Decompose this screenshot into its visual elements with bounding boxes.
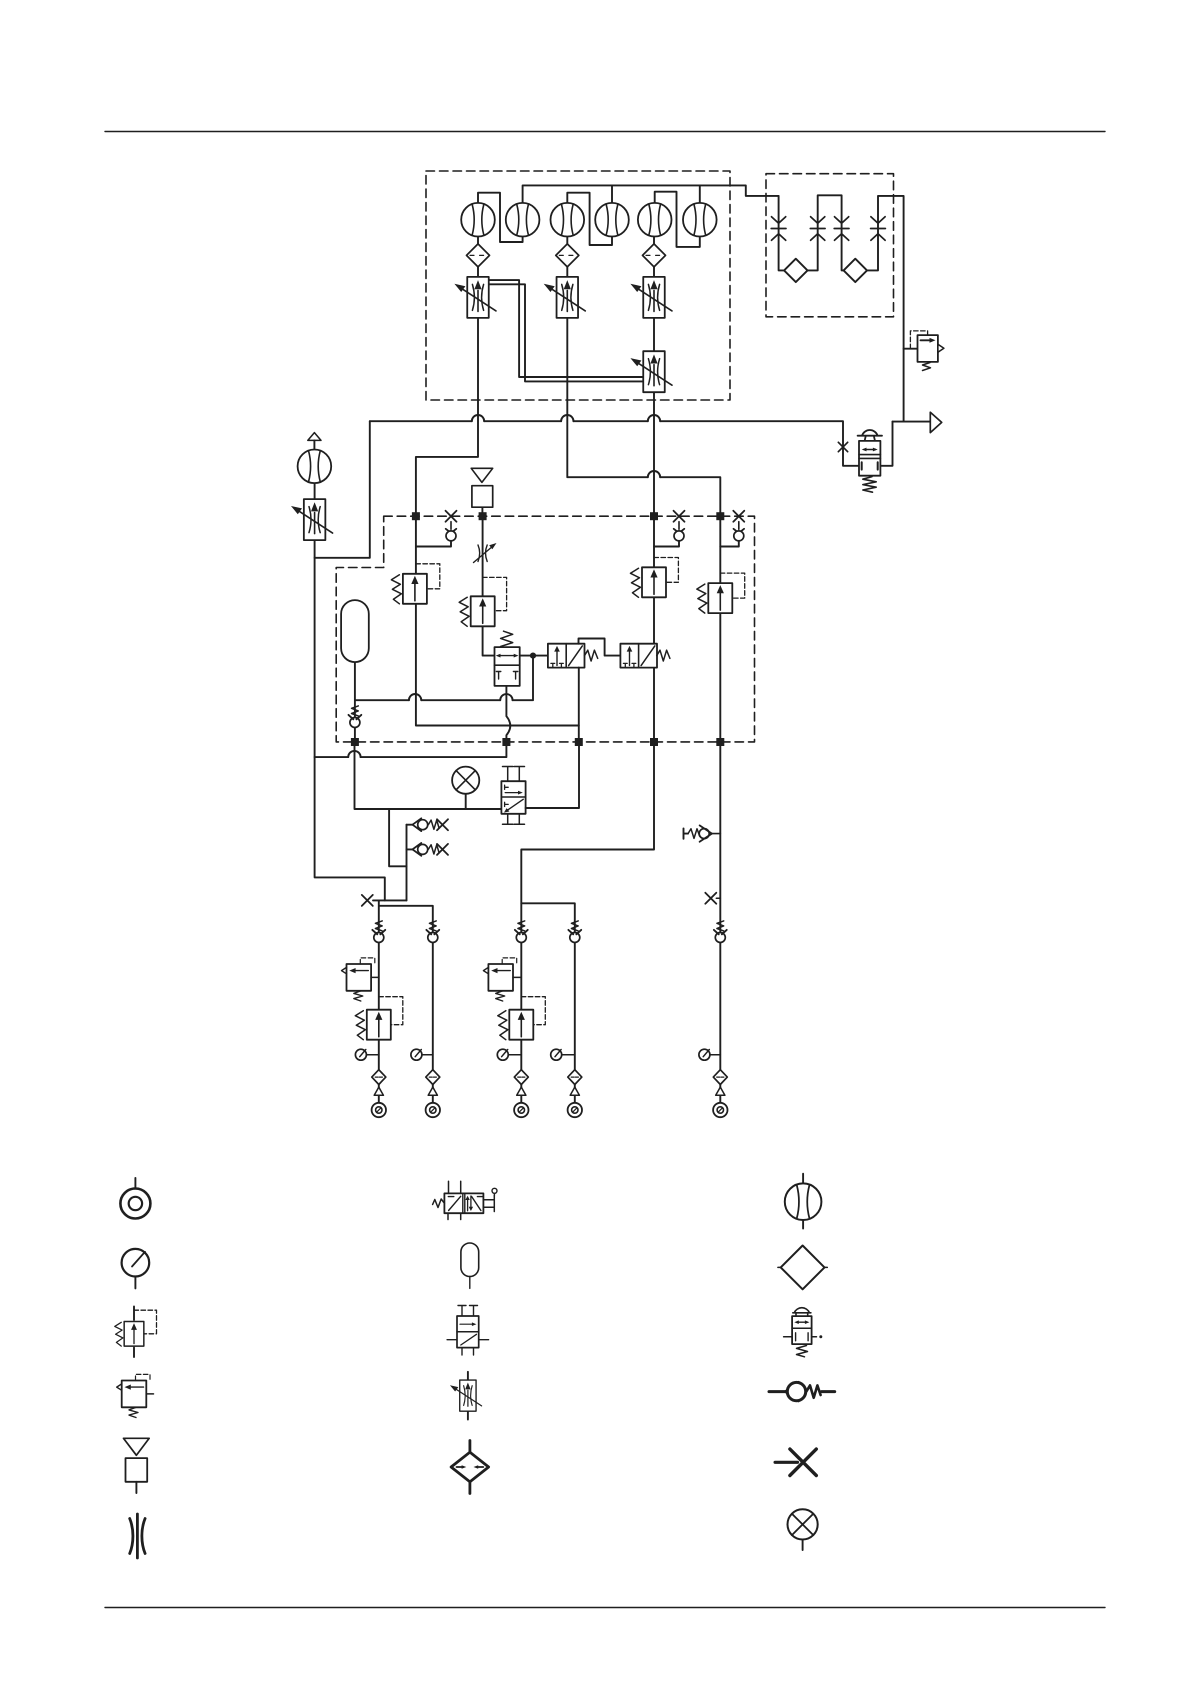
pressure regulator PR1 flow arrow: [921, 339, 932, 341]
wire: left branch column: [315, 484, 385, 901]
relief valve RV1 dashed pilot: [416, 564, 440, 589]
solenoid valve SV1 spring: [585, 650, 598, 661]
wire: main bus with hops over supply columns: [370, 421, 859, 466]
wire: check cluster rail: [406, 825, 408, 901]
filter F7: [426, 1070, 440, 1085]
flow control valve FC1: [454, 277, 496, 318]
wire: feed to pressure regulator PR1: [904, 348, 918, 350]
filter F2: [556, 244, 579, 267]
wire: bottom bus from left column to node N7 with hop: [315, 742, 507, 757]
legend check valve symbol: [769, 1390, 786, 1393]
relief valve RV1: [391, 574, 427, 604]
wire: filter F5 to coupling QC4 and down to outlet: [867, 196, 904, 422]
flow control valve FC2: [544, 277, 586, 318]
filter F8: [514, 1070, 528, 1085]
pressure regulator REG1: [342, 958, 375, 1001]
wire: node N5 column through RV4 to node N10: [719, 516, 721, 742]
wire: bottom relief check branch stub: [407, 848, 414, 850]
spring check valve G1a: [372, 921, 385, 943]
booster regulator B1 body: [859, 441, 880, 476]
legend breather funnel symbol: [124, 1438, 150, 1455]
legend closed port symbol: [775, 1461, 797, 1464]
node N7: [502, 738, 510, 746]
node N2: [479, 512, 487, 520]
solenoid valve SV3 lower cell diagonal: [506, 799, 523, 811]
solenoid valve SV2 left cell arrow: [629, 650, 631, 666]
pressure regulator PR1 exhaust triangle: [938, 344, 944, 352]
wire: supply column 1 (M1 to node N1): [416, 237, 478, 517]
node N10: [716, 738, 724, 746]
wire hop: bus over column 1: [472, 415, 484, 421]
solenoid valve SV3 body: [501, 781, 525, 814]
legend relief valve symbol: [133, 1307, 135, 1358]
wire: node N6 down then line C to valve SV3: [355, 742, 502, 809]
relief valve RV4: [697, 583, 733, 613]
spray terminal T3: [514, 1103, 528, 1117]
nozzle triangle G1a: [374, 1087, 383, 1095]
pipe: double line from FC1 to FC4 (inner): [489, 284, 643, 381]
pressure gauge PG2: [422, 1054, 433, 1056]
booster regulator B1 spring: [863, 477, 876, 493]
relief valve RV3: [631, 567, 667, 597]
bleed valve with check below X2: [674, 511, 685, 541]
quick coupling QC4: [871, 217, 886, 241]
relief valve RV4 dashed pilot: [720, 573, 744, 598]
dashed enclosure: control manifold: [336, 516, 754, 742]
relief valve RV2 dashed pilot: [483, 577, 507, 610]
legend pressure regulator symbol: [117, 1374, 150, 1417]
flow control valve FC5: [291, 499, 333, 540]
two-position valve PV1 port ticks: [496, 672, 517, 680]
booster regulator B1 dome: [858, 430, 882, 441]
relief valve RV6 dashed pilot: [521, 997, 545, 1025]
pressure regulator PR1 spring: [923, 363, 931, 371]
breather funnel LUB1: [471, 468, 493, 482]
solenoid valve SV3 upper cell arrow: [505, 792, 519, 794]
two-position valve PV1 body: [495, 647, 520, 686]
page top rule: [105, 131, 1105, 133]
relief check valve with plug CK1: [413, 818, 440, 831]
quick coupling QC1: [771, 217, 786, 241]
filter F6: [372, 1070, 386, 1085]
air motor M2: [506, 203, 540, 237]
wire: jog motor M5 top to M6 bottom: [655, 192, 700, 247]
filter F10: [713, 1070, 727, 1085]
wire: motor M4 top stub: [611, 185, 613, 203]
wire: funnel stub to node N2: [481, 507, 483, 516]
wire: booster outlet riser: [880, 422, 892, 466]
legend filter diamond symbol: [778, 1266, 827, 1268]
nozzle triangle G1b: [428, 1087, 437, 1095]
spring check valve G2b: [568, 921, 581, 943]
variable restrictor NV1: [478, 545, 487, 562]
node N8: [575, 738, 583, 746]
wire: group G1 entry network: [373, 900, 433, 1102]
wire hop: line A over PV1 drop line: [500, 694, 512, 700]
check valve CV1 below accumulator: [349, 706, 362, 728]
pressure gauge PG3: [508, 1054, 521, 1056]
node N1: [412, 512, 420, 520]
solenoid valve SV1 transfer diagonal: [569, 646, 583, 666]
wire: node N10 column to terminal: [719, 742, 721, 1103]
wire: PV1 outlet to dot and SV1: [520, 655, 548, 657]
relief valve RV5 dashed pilot: [379, 997, 403, 1025]
solenoid valve SV2 spring: [657, 650, 670, 661]
wire: supply bus above motors: [523, 185, 779, 203]
wire: bleed connector at node N5 column: [720, 541, 739, 546]
legend manual valve symbol: [444, 1193, 483, 1213]
pressure gauge PG5: [710, 1054, 720, 1056]
wire: outlet tee to delivery arrow: [893, 421, 931, 423]
wire: line C tee down to check cluster rail: [389, 809, 406, 866]
solenoid valve SV2 body: [620, 644, 657, 668]
air motor M5: [638, 203, 672, 237]
spray terminal T5: [713, 1103, 727, 1117]
spray terminal T2: [426, 1103, 440, 1117]
flow control valve FC3: [630, 277, 672, 318]
indicator lamp L1: [452, 767, 479, 794]
wire: node N9 feed to group G2: [521, 742, 654, 1103]
legend flow restrictor symbol: [136, 1514, 139, 1558]
filter F3: [643, 244, 666, 267]
legend solenoid valve symbol: [458, 1306, 478, 1317]
air motor M1: [461, 203, 495, 237]
page bottom rule: [105, 1607, 1105, 1609]
solenoid valve SV3 bottom port stubs: [503, 814, 525, 825]
wire hop: bottom bus over accumulator line: [348, 751, 360, 757]
legend pressure gauge symbol: [122, 1249, 150, 1277]
quick coupling QC2: [810, 217, 825, 241]
wire: node N1 column through relief valve RV1 to line B: [416, 516, 579, 725]
wire: bleed connector at node N1 column: [416, 541, 451, 546]
nozzle triangle G2b: [570, 1087, 579, 1095]
legend indicator lamp symbol: [788, 1509, 818, 1539]
two-position valve PV1 spring: [501, 631, 513, 646]
solenoid valve SV1 body: [548, 644, 585, 668]
accumulator ACC1: [341, 600, 369, 662]
air motor M6: [683, 203, 717, 237]
wire hop: line A over RV1 line: [409, 694, 421, 700]
wire: filter F4 to coupling QC2-QC3 bridge: [808, 195, 856, 270]
nozzle triangle G2a: [517, 1087, 526, 1095]
solenoid valve SV2 port ticks: [623, 663, 635, 667]
junction dot: [530, 653, 536, 659]
solenoid valve SV3 top port stubs: [503, 767, 525, 782]
spring check valve G1b: [426, 921, 439, 943]
air motor M7: [298, 450, 332, 484]
pressure gauge PG1: [366, 1054, 378, 1056]
air motor M3: [551, 203, 585, 237]
legend flow control valve symbol: [467, 1372, 469, 1420]
pressure regulator PR1 body: [918, 335, 938, 362]
wire: supply column 3 (M5 through FC3 FC4 to node N4): [653, 237, 655, 517]
nozzle triangle G3: [716, 1087, 725, 1095]
pressure regulator PR1 dashed cap: [910, 331, 927, 349]
legend air motor symbol: [802, 1174, 804, 1229]
legend booster regulator symbol: [793, 1308, 811, 1316]
relief valve RV3 dashed pilot: [654, 558, 678, 583]
legend spray terminal symbol: [134, 1178, 136, 1189]
shut-off valve X on group G1: [362, 895, 373, 906]
bleed valve with check below X1: [446, 511, 457, 541]
node N4: [650, 512, 658, 520]
delivery arrow (outlet): [930, 412, 941, 432]
wire hop: bus over column 2: [561, 415, 573, 421]
flow control valve FC4: [630, 351, 672, 392]
booster regulator B1 arrows: [864, 449, 875, 451]
booster regulator B1 port ticks: [862, 462, 878, 469]
relief valve RV5: [355, 1010, 391, 1040]
pressure regulator REG2: [483, 958, 516, 1001]
filter F4: [784, 259, 807, 282]
bleed valve with check below X3: [733, 511, 744, 541]
quick coupling QC3: [834, 217, 849, 241]
wire: node N4 column through RV3 and SV2: [653, 516, 655, 742]
node N5: [716, 512, 724, 520]
wire: jog motor M3 top to M4 bottom: [567, 193, 612, 245]
solenoid valve SV1 left cell arrow: [556, 650, 558, 666]
wire: left branch tee to bus riser: [315, 421, 370, 558]
wire: coupling manifold inlet: [779, 196, 796, 271]
node N9: [650, 738, 658, 746]
exhaust vent triangle above motor M7: [308, 433, 321, 441]
two-position valve PV1 arrows: [498, 655, 516, 657]
wire: group G2 cross tee to column 2: [521, 903, 575, 1103]
legend accumulator symbol: [461, 1243, 479, 1277]
air motor M4: [595, 203, 629, 237]
relief valve RV2: [459, 596, 495, 626]
pressure gauge PG4: [562, 1054, 575, 1056]
solenoid valve SV2 transfer diagonal: [641, 646, 655, 666]
filter F9: [568, 1070, 582, 1085]
wire: SV1 bottom to node N8: [578, 668, 580, 742]
shut-off valve X on group G3: [705, 893, 716, 904]
wire: PV1 bottom drop with S-hop over line B to node N7: [506, 686, 510, 742]
spray terminal T4: [568, 1103, 582, 1117]
plugged check branch on G3 column: [684, 828, 689, 838]
spray terminal T1: [372, 1103, 386, 1117]
node N6: [351, 738, 359, 746]
wire: jog motor M1 top to M2 bottom: [478, 193, 523, 242]
wire: bleed connector at node N4 column: [654, 541, 679, 546]
wire: accumulator column to node N6: [354, 662, 356, 742]
relief check valve with plug CK2: [413, 843, 440, 856]
wire: hop of column-2 line over column 3: [648, 471, 660, 477]
wire: line A from accumulator tee to dot junction with hops: [355, 656, 533, 701]
pipe: double line from FC1 to FC4 (outer): [489, 280, 643, 377]
filter F5: [844, 259, 867, 282]
relief valve RV6: [498, 1010, 534, 1040]
solenoid valve SV1 port ticks: [551, 663, 563, 667]
wire: motor M6 top stub: [699, 185, 701, 203]
wire: SV3 outlet to node N8 column: [526, 742, 579, 808]
wire hop: bus over column 3: [648, 415, 660, 421]
legend bold filter symbol: [468, 1441, 471, 1494]
spring check valve G3: [714, 921, 727, 943]
dashed enclosure: air motor unit: [426, 171, 730, 400]
wire: node N2 column down through needle valve and RV2: [483, 516, 495, 655]
wire: SV1 top bridge to SV2 inlet: [579, 639, 621, 656]
wire: lamp stem: [465, 794, 467, 809]
wire: top relief check branch stub: [407, 824, 414, 826]
dashed enclosure: coupling manifold: [766, 174, 894, 317]
filter F1: [467, 244, 490, 267]
spring check valve G2a: [515, 921, 528, 943]
shut-off valve X on booster feed: [838, 442, 847, 451]
wire: supply column 2 (M3 to node N5): [567, 237, 720, 517]
